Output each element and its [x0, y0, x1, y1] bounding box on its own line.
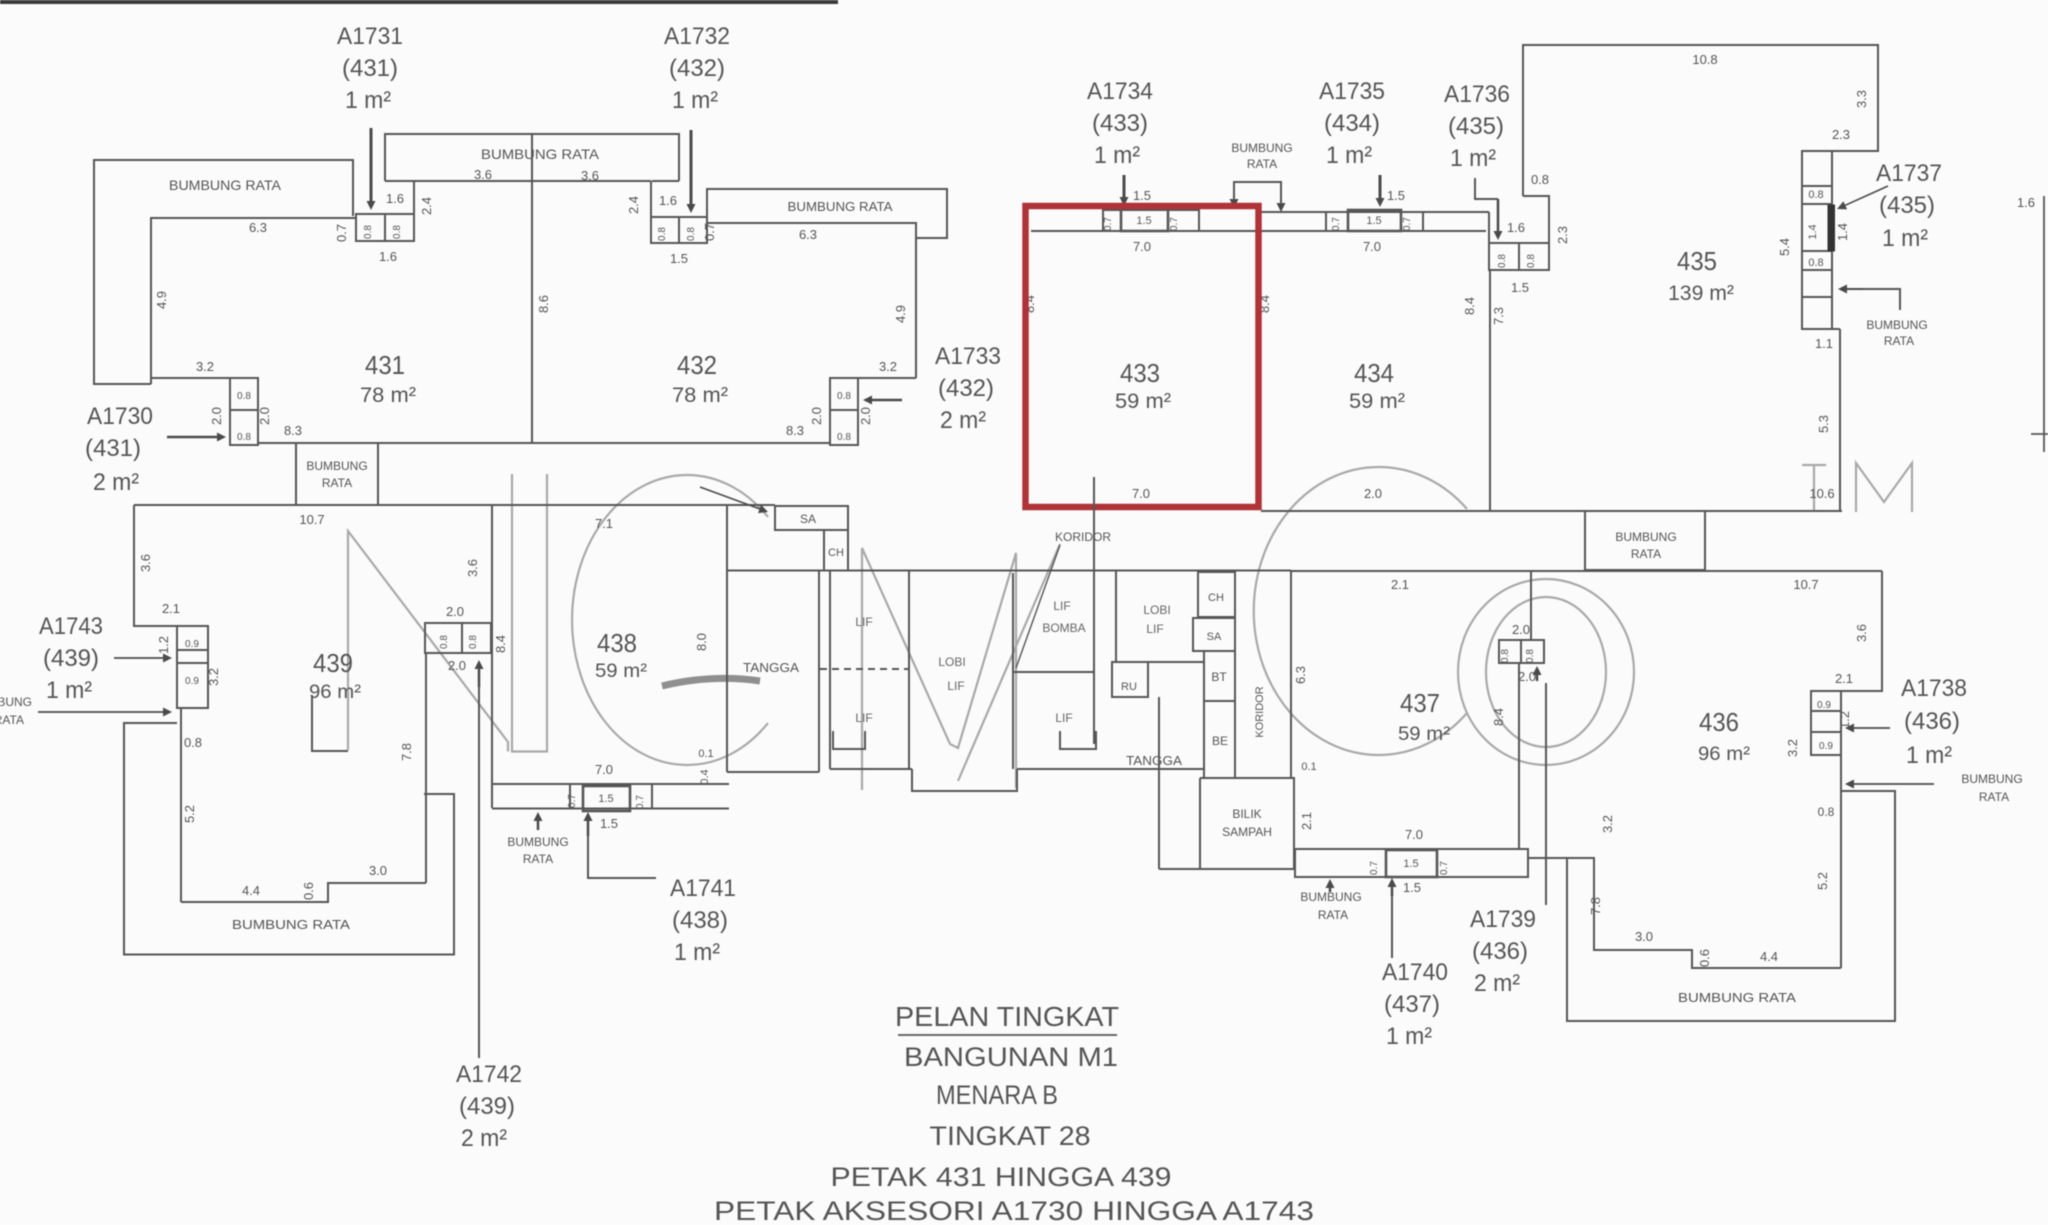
svg-text:BUMBUNG RATA: BUMBUNG RATA	[788, 199, 893, 214]
svg-text:1.4: 1.4	[1835, 223, 1850, 241]
unit 439 notch	[312, 695, 348, 751]
wall 434-435	[1489, 270, 1491, 511]
svg-text:96 m²: 96 m²	[309, 682, 361, 703]
svg-text:3.0: 3.0	[369, 863, 387, 878]
svg-text:0.7: 0.7	[1369, 861, 1380, 875]
watermark letter o inner	[1486, 597, 1606, 747]
svg-text:LIF: LIF	[1055, 711, 1072, 725]
watermark letter N right bar	[512, 474, 547, 752]
svg-text:0.8: 0.8	[686, 227, 697, 241]
svg-text:2.3: 2.3	[1555, 226, 1570, 244]
unit 433-434 top wall	[1261, 211, 1489, 213]
svg-text:0.8: 0.8	[237, 391, 251, 402]
svg-text:1.5: 1.5	[1133, 188, 1151, 203]
unit 437 right wall	[1518, 663, 1520, 849]
svg-text:59 m²: 59 m²	[595, 661, 647, 682]
unit 439 wall below A1743	[180, 708, 182, 902]
svg-text:0.7: 0.7	[702, 223, 717, 241]
svg-text:RU: RU	[1121, 681, 1137, 693]
unit 436 bottom	[1528, 858, 1841, 968]
svg-text:7.3: 7.3	[1491, 307, 1506, 325]
scan edge line right	[2043, 196, 2045, 452]
svg-text:1.6: 1.6	[386, 191, 404, 206]
svg-text:SA: SA	[1207, 631, 1222, 643]
svg-text:A1743: A1743	[39, 613, 103, 640]
lobby protrusion	[912, 769, 1205, 791]
svg-text:TINGKAT 28: TINGKAT 28	[930, 1121, 1091, 1151]
svg-text:A1733: A1733	[935, 343, 1001, 370]
roof outline bottom-left	[124, 723, 454, 955]
svg-text:LIF: LIF	[1146, 622, 1163, 636]
svg-text:0.8: 0.8	[363, 225, 374, 239]
A1731 arrow	[370, 128, 373, 201]
svg-text:3.6: 3.6	[138, 554, 153, 572]
svg-text:0.8: 0.8	[1808, 257, 1823, 269]
corridor main line	[727, 570, 1291, 572]
svg-text:(431): (431)	[85, 435, 141, 462]
svg-text:PETAK AKSESORI A1730 HINGGA: PETAK AKSESORI A1730 HINGGA A1743	[714, 1196, 1314, 1225]
SA cell right	[1193, 618, 1235, 651]
svg-text:1.1: 1.1	[1815, 336, 1833, 351]
lift door right	[1060, 731, 1096, 749]
stair TANGGA 437 side	[1159, 697, 1295, 869]
svg-text:1 m²: 1 m²	[1326, 142, 1372, 169]
svg-text:7.8: 7.8	[1588, 897, 1603, 915]
A1743 arrows	[114, 657, 163, 659]
svg-text:1.6: 1.6	[2017, 195, 2035, 210]
svg-text:2.4: 2.4	[626, 196, 641, 214]
lift lobby right block	[1116, 571, 1204, 662]
svg-text:PETAK 431 HINGGA 439: PETAK 431 HINGGA 439	[831, 1162, 1172, 1192]
svg-text:(432): (432)	[938, 375, 994, 402]
svg-text:TANGGA: TANGGA	[1126, 753, 1182, 768]
svg-text:SA: SA	[800, 512, 816, 526]
svg-text:0.8: 0.8	[1808, 189, 1823, 201]
A1739 leader	[1545, 683, 1547, 905]
svg-text:TANGGA: TANGGA	[743, 660, 799, 675]
wire 434 top to A1736 box	[1488, 212, 1490, 243]
A1732 arrow	[690, 130, 693, 204]
roof arrow 438	[537, 821, 540, 830]
roof box below corridor	[1585, 511, 1705, 570]
A1734 arrow	[1123, 175, 1126, 197]
svg-text:1.5: 1.5	[1403, 880, 1421, 895]
svg-text:0.1: 0.1	[698, 748, 713, 760]
svg-text:2.0: 2.0	[209, 407, 224, 425]
svg-text:436: 436	[1699, 707, 1739, 737]
watermark C swoosh	[662, 678, 760, 686]
svg-text:0.7: 0.7	[1402, 217, 1413, 231]
dashed corridor line	[820, 668, 909, 670]
svg-text:2.1: 2.1	[1391, 577, 1409, 592]
svg-text:6.3: 6.3	[249, 220, 267, 235]
CH cell	[824, 530, 848, 571]
svg-text:0.7: 0.7	[1169, 217, 1180, 231]
unit 432 bottom wall	[532, 442, 830, 444]
SA box	[775, 506, 848, 530]
svg-text:A1736: A1736	[1444, 81, 1510, 108]
svg-text:4.4: 4.4	[1760, 949, 1778, 964]
wall 436 left upper	[1530, 571, 1532, 640]
unit 437 bottom row	[1295, 849, 1528, 877]
svg-text:(439): (439)	[459, 1093, 515, 1120]
svg-text:8.6: 8.6	[536, 295, 551, 313]
watermark letter M extra diagonal	[958, 544, 1060, 781]
svg-text:3.6: 3.6	[465, 559, 480, 577]
watermark letter M	[862, 548, 1016, 790]
A1736 pointer elbow	[1475, 178, 1498, 199]
svg-text:BUMBUNG: BUMBUNG	[1231, 141, 1292, 155]
lift shaft right column	[1013, 477, 1094, 769]
unit 436 right wall lower	[1840, 755, 1842, 968]
roof banner top-centre over 431-432	[385, 134, 679, 181]
svg-text:1.5: 1.5	[1387, 188, 1405, 203]
svg-text:3.3: 3.3	[1854, 90, 1869, 108]
A1742 arrow	[478, 669, 481, 687]
accessory box A1739	[1499, 640, 1544, 663]
svg-text:A1738: A1738	[1901, 675, 1967, 702]
svg-text:A1731: A1731	[337, 23, 403, 50]
svg-text:MENARA B: MENARA B	[936, 1080, 1058, 1110]
svg-text:A1730: A1730	[87, 403, 153, 430]
svg-text:8.3: 8.3	[284, 423, 302, 438]
svg-text:10.8: 10.8	[1692, 52, 1717, 67]
svg-text:1.5: 1.5	[600, 816, 618, 831]
lift door left	[833, 731, 865, 749]
svg-text:6.3: 6.3	[1293, 666, 1308, 684]
A1737 black bar	[1828, 205, 1835, 251]
svg-text:7.0: 7.0	[1133, 239, 1151, 254]
svg-text:435: 435	[1677, 246, 1717, 276]
svg-text:BE: BE	[1212, 734, 1228, 748]
accessory box A1734 cells	[1103, 210, 1199, 231]
svg-text:1.5: 1.5	[1136, 215, 1151, 227]
unit 435 upper-left wall	[1523, 45, 1878, 196]
svg-text:3.2: 3.2	[206, 668, 221, 686]
svg-text:2.0: 2.0	[858, 407, 873, 425]
svg-text:96 m²: 96 m²	[1698, 744, 1750, 765]
roof outline 431 left	[94, 160, 353, 384]
svg-text:SAMPAH: SAMPAH	[1222, 825, 1272, 839]
svg-text:LIF: LIF	[855, 615, 872, 629]
svg-text:BT: BT	[1211, 670, 1227, 684]
svg-text:0.8: 0.8	[439, 635, 450, 649]
svg-text:3.2: 3.2	[1600, 815, 1615, 833]
accessory box A1732	[651, 217, 707, 243]
BILIK SAMPAH room	[1200, 778, 1294, 869]
svg-text:2.0: 2.0	[1518, 669, 1536, 684]
svg-text:A1735: A1735	[1319, 78, 1385, 105]
roof arrow 437	[1329, 888, 1332, 892]
svg-text:1.6: 1.6	[1507, 220, 1525, 235]
svg-text:78 m²: 78 m²	[672, 384, 728, 407]
svg-text:0.8: 0.8	[1531, 172, 1549, 187]
svg-text:3.2: 3.2	[879, 359, 897, 374]
svg-text:2.0: 2.0	[257, 407, 272, 425]
svg-text:BUMBUNG: BUMBUNG	[507, 835, 568, 849]
watermark letter o outer	[1458, 579, 1634, 765]
svg-text:0.8: 0.8	[184, 735, 202, 750]
svg-text:0.8: 0.8	[1497, 254, 1508, 268]
svg-text:A1737: A1737	[1876, 160, 1942, 187]
A1733 arrow	[872, 399, 902, 402]
svg-text:1.5: 1.5	[670, 251, 688, 266]
A1738 arrow	[1854, 727, 1890, 729]
svg-text:10.6: 10.6	[1809, 486, 1834, 501]
svg-text:2 m²: 2 m²	[93, 469, 139, 496]
dim 3.2 step 432	[858, 377, 916, 379]
svg-text:7.1: 7.1	[595, 516, 613, 531]
svg-text:0.8: 0.8	[1500, 649, 1511, 663]
svg-text:0.8: 0.8	[657, 227, 668, 241]
svg-text:BUMBUNG: BUMBUNG	[1961, 772, 2022, 786]
accessory box A1736	[1489, 243, 1549, 270]
svg-text:0.8: 0.8	[837, 391, 851, 402]
svg-text:KORIDOR: KORIDOR	[1055, 530, 1111, 544]
svg-text:A1732: A1732	[664, 23, 730, 50]
svg-text:1.5: 1.5	[1403, 858, 1418, 870]
svg-text:4.4: 4.4	[242, 883, 260, 898]
accessory box A1735 cells	[1326, 212, 1423, 231]
corridor line below 433-435	[1261, 510, 1842, 512]
svg-text:(433): (433)	[1092, 110, 1148, 137]
svg-text:3.6: 3.6	[1854, 624, 1869, 642]
svg-text:BILIK: BILIK	[1232, 807, 1261, 821]
svg-text:2 m²: 2 m²	[461, 1125, 507, 1152]
wire banner to A1731 box	[413, 181, 415, 217]
watermark letter C 1	[572, 475, 768, 765]
svg-text:(434): (434)	[1324, 110, 1380, 137]
svg-text:RATA: RATA	[322, 476, 352, 490]
svg-text:0.7: 0.7	[1103, 217, 1114, 231]
svg-text:A1741: A1741	[670, 875, 736, 902]
svg-text:433: 433	[1120, 358, 1160, 388]
party wall 431-432	[531, 181, 533, 443]
svg-text:RATA: RATA	[1247, 157, 1277, 171]
svg-text:2.1: 2.1	[1299, 812, 1314, 830]
svg-text:7.0: 7.0	[1132, 486, 1150, 501]
svg-text:(439): (439)	[43, 645, 99, 672]
svg-text:RATA: RATA	[1631, 547, 1661, 561]
svg-text:(435): (435)	[1879, 192, 1935, 219]
scan edge line top	[0, 0, 838, 4]
module top line left	[134, 504, 775, 506]
unit 435 right cell column	[1802, 151, 1832, 329]
watermark TM superscript M	[1856, 463, 1912, 512]
svg-text:0.8: 0.8	[1525, 649, 1536, 663]
svg-text:A1739: A1739	[1470, 906, 1536, 933]
accessory box A1730	[230, 378, 258, 445]
unit 439 right wall	[425, 653, 427, 883]
svg-text:59 m²: 59 m²	[1349, 390, 1405, 413]
svg-text:438: 438	[597, 628, 637, 658]
unit 436 right wall upper	[1841, 571, 1882, 691]
svg-text:1 m²: 1 m²	[674, 939, 720, 966]
svg-text:0.7: 0.7	[1331, 217, 1342, 231]
svg-text:BUMBUNG RATA: BUMBUNG RATA	[169, 177, 282, 193]
svg-text:8.0: 8.0	[694, 633, 709, 651]
RU room	[1112, 662, 1148, 697]
unit 435 right wall lower	[1832, 329, 1840, 511]
svg-text:7.8: 7.8	[399, 743, 414, 761]
dim 3.2 step 431	[151, 377, 230, 379]
accessory box A1733	[830, 378, 858, 445]
A1741 arrow and leader	[587, 821, 590, 836]
svg-text:7.0: 7.0	[595, 762, 613, 777]
unit 431 left wall	[151, 218, 356, 384]
svg-text:8.4: 8.4	[493, 635, 508, 653]
svg-text:BUMBUNG RATA: BUMBUNG RATA	[1678, 990, 1796, 1005]
svg-text:1 m²: 1 m²	[1094, 142, 1140, 169]
svg-text:1 m²: 1 m²	[1882, 225, 1928, 252]
accessory box A1742	[425, 623, 491, 653]
roof arrow right	[1854, 783, 1934, 785]
svg-text:LOBI: LOBI	[938, 655, 965, 669]
svg-text:0.9: 0.9	[1817, 700, 1831, 711]
svg-text:(431): (431)	[342, 55, 398, 82]
svg-text:BUMBUNG: BUMBUNG	[1615, 530, 1676, 544]
svg-text:2.1: 2.1	[1835, 671, 1853, 686]
svg-text:1.4: 1.4	[1807, 224, 1819, 239]
svg-text:BUMBUNG RATA: BUMBUNG RATA	[232, 917, 350, 932]
svg-text:0.8: 0.8	[1818, 805, 1835, 819]
svg-text:RATA: RATA	[0, 713, 24, 727]
svg-text:1 m²: 1 m²	[1386, 1023, 1432, 1050]
unit 432 right wall	[915, 238, 917, 378]
svg-text:KORIDOR: KORIDOR	[1254, 686, 1266, 737]
accessory box A1731	[356, 214, 414, 241]
svg-text:4.9: 4.9	[154, 291, 169, 309]
svg-text:5.3: 5.3	[1816, 415, 1831, 433]
svg-text:CH: CH	[828, 547, 844, 559]
svg-text:8.4: 8.4	[1491, 708, 1506, 726]
svg-text:0.7: 0.7	[635, 795, 646, 809]
A1740 arrow leader	[1391, 887, 1394, 896]
svg-text:2 m²: 2 m²	[940, 407, 986, 434]
svg-text:0.8: 0.8	[392, 225, 403, 239]
svg-text:139 m²: 139 m²	[1668, 282, 1734, 305]
svg-text:LIF: LIF	[1053, 599, 1070, 613]
svg-text:BUMBUNG: BUMBUNG	[1866, 318, 1927, 332]
svg-text:0.8: 0.8	[1526, 254, 1537, 268]
svg-text:3.6: 3.6	[474, 167, 492, 182]
svg-text:434: 434	[1354, 358, 1394, 388]
CH cell right	[1198, 572, 1235, 617]
unit 439 left wall	[134, 505, 177, 626]
svg-text:1.2: 1.2	[156, 636, 171, 654]
svg-text:1 m²: 1 m²	[1906, 742, 1952, 769]
svg-text:78 m²: 78 m²	[360, 384, 416, 407]
svg-text:A1740: A1740	[1382, 959, 1448, 986]
A1742 leader	[478, 687, 480, 1058]
svg-text:2.4: 2.4	[419, 197, 434, 215]
red highlight box unit 433	[1026, 206, 1259, 507]
lift bank left	[830, 571, 912, 769]
svg-text:PELAN TINGKAT: PELAN TINGKAT	[895, 1001, 1119, 1032]
svg-text:RATA: RATA	[523, 852, 553, 866]
svg-text:0.7: 0.7	[567, 794, 578, 808]
svg-text:8.3: 8.3	[786, 423, 804, 438]
svg-text:0.6: 0.6	[1697, 949, 1712, 967]
A1737 pointer	[1845, 186, 1888, 205]
svg-text:(436): (436)	[1904, 708, 1960, 735]
roof pointer right 435	[1846, 289, 1900, 310]
svg-text:2.0: 2.0	[448, 658, 466, 673]
step BILIK to row	[1294, 849, 1296, 869]
svg-text:(436): (436)	[1472, 938, 1528, 965]
A1730 arrow	[167, 436, 217, 439]
svg-text:59 m²: 59 m²	[1115, 390, 1171, 413]
SA pointer	[700, 487, 760, 509]
svg-text:1.6: 1.6	[659, 193, 677, 208]
svg-text:8.4: 8.4	[1462, 297, 1477, 315]
svg-text:432: 432	[677, 350, 717, 380]
unit 438 left wall	[491, 505, 493, 808]
svg-text:0.9: 0.9	[1819, 741, 1833, 752]
svg-text:2.0: 2.0	[446, 604, 464, 619]
svg-text:5.2: 5.2	[1815, 872, 1830, 890]
svg-text:BUMBUNG: BUMBUNG	[1300, 890, 1361, 904]
svg-text:10.7: 10.7	[299, 512, 324, 527]
A1739 arrow	[1536, 675, 1539, 681]
svg-text:0.8: 0.8	[237, 432, 251, 443]
svg-text:3.6: 3.6	[581, 168, 599, 183]
BT cell	[1204, 651, 1235, 701]
svg-text:5.4: 5.4	[1777, 238, 1792, 256]
svg-text:RATA: RATA	[1979, 790, 2009, 804]
svg-text:0.9: 0.9	[185, 676, 199, 687]
roof banner right over 432	[707, 189, 947, 238]
corridor walls vertical	[1235, 571, 1291, 778]
A1735 arrow	[1379, 175, 1382, 198]
svg-text:437: 437	[1400, 688, 1440, 718]
svg-text:A1734: A1734	[1087, 78, 1153, 105]
svg-text:0.6: 0.6	[301, 882, 316, 900]
watermark letter N	[348, 531, 508, 752]
wire banner to A1732 box	[650, 181, 652, 217]
svg-text:LIF: LIF	[947, 679, 964, 693]
svg-text:BANGUNAN M1: BANGUNAN M1	[904, 1042, 1118, 1072]
svg-text:0.7: 0.7	[1439, 861, 1450, 875]
svg-text:LOBI: LOBI	[1143, 603, 1170, 617]
svg-text:2.0: 2.0	[1364, 486, 1382, 501]
unit 438 bottom band	[492, 784, 729, 809]
accessory box A1743	[177, 626, 208, 708]
svg-text:1 m²: 1 m²	[345, 87, 391, 114]
svg-text:LIF: LIF	[855, 711, 872, 725]
roof outline bottom-right	[1567, 791, 1895, 1021]
svg-text:BOMBA: BOMBA	[1042, 621, 1085, 635]
svg-text:RATA: RATA	[1884, 334, 1914, 348]
svg-text:7.0: 7.0	[1405, 827, 1423, 842]
svg-text:1 m²: 1 m²	[46, 677, 92, 704]
svg-text:1.5: 1.5	[598, 793, 613, 805]
svg-text:(437): (437)	[1384, 991, 1440, 1018]
stair TANGGA 438	[727, 505, 819, 772]
svg-text:2 m²: 2 m²	[1474, 970, 1520, 997]
svg-text:6.3: 6.3	[799, 227, 817, 242]
roof box below 431	[296, 443, 378, 505]
svg-text:2.0: 2.0	[1512, 622, 1530, 637]
unit 431 bottom wall	[258, 442, 532, 444]
svg-text:2.3: 2.3	[1832, 127, 1850, 142]
svg-text:7.0: 7.0	[1363, 239, 1381, 254]
svg-text:3.2: 3.2	[1785, 739, 1800, 757]
svg-text:(435): (435)	[1448, 113, 1504, 140]
unit 433 top line	[1031, 230, 1486, 232]
svg-text:0.7: 0.7	[334, 224, 349, 242]
svg-text:59 m²: 59 m²	[1398, 724, 1450, 745]
